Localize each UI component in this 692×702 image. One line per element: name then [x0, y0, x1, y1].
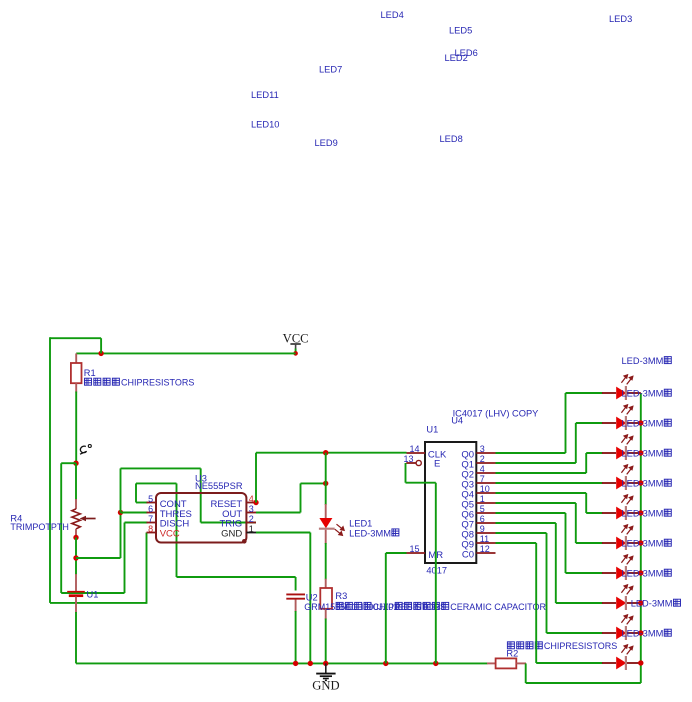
U4 pin 3 Q0: [461, 444, 495, 461]
junction on cathode bus: [638, 660, 643, 665]
svg-text:LED-3MM: LED-3MM: [622, 509, 664, 519]
svg-text:4: 4: [249, 494, 254, 504]
LED D7: [602, 555, 641, 580]
node VCC branch junction: [98, 351, 103, 356]
wire THRES connect: [121, 512, 148, 514]
wire left rail down: [49, 337, 51, 603]
U3 pin 6 THRES: [147, 504, 192, 520]
svg-text:LED-3MM: LED-3MM: [622, 419, 664, 429]
label LED-3MM: [622, 479, 672, 489]
node THRES branch junction: [73, 555, 78, 560]
svg-text:LED-3MM: LED-3MM: [622, 539, 664, 549]
svg-text:8: 8: [148, 524, 153, 534]
wire 555 GND connect: [256, 532, 310, 534]
LED D3: [602, 435, 641, 460]
wire trimpot to battery: [75, 538, 77, 576]
svg-text:LED-3MM: LED-3MM: [631, 599, 673, 609]
junction on cathode bus: [638, 540, 643, 545]
U4 pin 7 Q3: [461, 474, 495, 491]
LED D5: [602, 495, 641, 520]
wire CONT connect: [136, 502, 148, 504]
svg-text:12: 12: [480, 544, 490, 554]
LED D2: [602, 405, 641, 430]
svg-text:LED5: LED5: [449, 26, 472, 36]
svg-text:LED7: LED7: [319, 65, 342, 75]
wire Q8 to LED: [496, 533, 604, 633]
wire capacitor top: [295, 577, 297, 591]
svg-text:13: 13: [403, 454, 413, 464]
U4 pin 9 Q8: [461, 524, 495, 541]
wire cathode bus: [640, 393, 642, 683]
svg-text:CERAMIC CAPACITOR: CERAMIC CAPACITOR: [450, 602, 546, 612]
wire E to ground rail: [435, 483, 437, 664]
resistor R2: [487, 658, 526, 668]
svg-text:LED4: LED4: [381, 10, 404, 20]
svg-text:5: 5: [148, 494, 153, 504]
label R3 value: [336, 602, 446, 612]
U4 pin 6 Q7: [461, 514, 495, 531]
svg-text:U4: U4: [451, 416, 463, 426]
svg-text:LED-3MM: LED-3MM: [622, 389, 664, 399]
wire battery to ground rail: [75, 612, 77, 663]
wire THRES branch up: [120, 513, 122, 559]
label R2 value: [507, 641, 617, 651]
svg-text:VCC: VCC: [160, 529, 180, 540]
U4 pin 11 Q9: [461, 534, 495, 551]
node trimpot bottom junction: [73, 535, 78, 540]
svg-text:2: 2: [249, 514, 254, 524]
wire RESET up: [255, 453, 257, 503]
junction on ground rail: [308, 661, 313, 666]
junction on ground rail: [293, 661, 298, 666]
wire VCC branch up: [100, 338, 102, 353]
label LED-3MM: [622, 449, 672, 459]
svg-text:3: 3: [249, 504, 254, 514]
svg-text:U1: U1: [426, 424, 438, 434]
wire Q4 to LED: [496, 493, 604, 513]
svg-text:C0: C0: [462, 550, 474, 561]
U3 corner dot: [242, 539, 247, 544]
node VCC junction: [293, 351, 298, 356]
wire THRES-TRIG top: [121, 467, 201, 469]
wire capacitor to ground rail: [295, 611, 297, 663]
wire OUT connect: [256, 512, 301, 514]
svg-text:LED3: LED3: [609, 14, 632, 24]
no-connect marker: [80, 445, 91, 455]
wire 555 VCC pin drop: [146, 533, 148, 604]
svg-text:LED-3MM: LED-3MM: [349, 528, 391, 538]
svg-text:LED11: LED11: [251, 90, 279, 100]
LED D8: [602, 585, 641, 610]
node LED1 top junction: [323, 450, 328, 455]
wire VCC horizontal: [76, 352, 295, 354]
label LED-3MM: [622, 419, 672, 429]
junction on cathode bus: [638, 630, 643, 635]
op-amp U3 NE555PSR body: [156, 493, 246, 543]
svg-text:CHIPRESISTORS: CHIPRESISTORS: [544, 641, 617, 651]
svg-text:NE555PSR: NE555PSR: [195, 481, 243, 491]
U4 pin 14 CLK: [407, 444, 448, 461]
svg-text:LED-3MM: LED-3MM: [622, 569, 664, 579]
svg-text:LED-3MM: LED-3MM: [622, 629, 664, 639]
svg-text:TRIMPOTPTH: TRIMPOTPTH: [10, 522, 69, 532]
U3 pin 1 GND: [221, 524, 256, 540]
wire MR connect: [386, 552, 407, 554]
svg-text:LED1: LED1: [349, 519, 372, 529]
node THRES junction: [118, 510, 123, 515]
wire bottom jog to pin8: [50, 602, 147, 604]
U3 pin 4 RESET: [211, 494, 256, 510]
svg-text:10: 10: [480, 484, 490, 494]
node R1-R4 junction: [73, 461, 78, 466]
junction on cathode bus: [638, 450, 643, 455]
U4 pin 12 C0: [462, 544, 496, 561]
wire Q6 to LED: [496, 513, 604, 573]
node OUT-LED1 junction: [323, 481, 328, 486]
wire RESET to CLK: [256, 452, 407, 454]
label LED-3MM: [622, 539, 672, 549]
svg-text:LED8: LED8: [440, 134, 463, 144]
wire Q1 to LED: [496, 423, 604, 463]
wire to capacitor: [177, 576, 296, 578]
trimmer potentiometer R4: [72, 499, 96, 538]
svg-text:R1: R1: [84, 368, 96, 378]
VCC power flag: [283, 332, 309, 354]
junction on cathode bus: [638, 420, 643, 425]
wire DISCH drop: [124, 523, 126, 594]
U4 pin 4 Q2: [461, 464, 495, 481]
wire Q3 to LED: [496, 482, 604, 484]
svg-text:7: 7: [480, 474, 485, 484]
label LED-3MM: [622, 629, 672, 639]
wire OUT to LED1: [301, 482, 326, 484]
label LED-3MM row1: [622, 389, 672, 399]
wire DISCH connect: [125, 522, 148, 524]
junction on cathode bus: [638, 510, 643, 515]
wire left inner drop: [60, 463, 62, 593]
wire LED1 anode: [325, 453, 327, 505]
svg-text:LED-3MM: LED-3MM: [622, 479, 664, 489]
svg-text:IC4017 (LHV) COPY: IC4017 (LHV) COPY: [453, 409, 539, 419]
label R1 value: [85, 378, 195, 388]
node RESET junction: [253, 500, 258, 505]
U4 pin 15 MR: [407, 544, 444, 561]
wire THRES branch: [76, 557, 121, 559]
svg-text:U1: U1: [87, 589, 99, 599]
junction on cathode bus: [638, 600, 643, 605]
wire ground rail: [76, 662, 488, 664]
junction on ground rail: [323, 661, 328, 666]
U4 pin 1 Q5: [461, 494, 495, 511]
resistor R3: [320, 579, 332, 620]
wire E jog: [406, 482, 436, 484]
wire Q9 to LED: [496, 543, 604, 663]
wire 555 GND drop: [309, 533, 311, 664]
LED D4: [602, 465, 641, 490]
svg-text:6: 6: [480, 514, 485, 524]
svg-text:14: 14: [409, 444, 419, 454]
svg-text:2: 2: [480, 454, 485, 464]
U3 pin 7 DISCH: [147, 514, 190, 530]
svg-text:LED-3MM: LED-3MM: [622, 356, 664, 366]
wire branch left: [61, 462, 76, 464]
svg-text:11: 11: [480, 534, 489, 544]
svg-text:1: 1: [480, 494, 485, 504]
wire Q5 to LED: [496, 503, 604, 543]
wire TRIG drop: [200, 468, 202, 522]
wire THRES-TRIG up: [120, 468, 122, 512]
capacitor U2: [286, 594, 305, 612]
wire R1 bottom: [75, 392, 77, 464]
label LED-3MM: [622, 509, 672, 519]
battery U1: [67, 574, 85, 613]
svg-text:E: E: [434, 459, 440, 470]
wire OUT up: [300, 483, 302, 512]
svg-text:4: 4: [480, 464, 485, 474]
wire top jog: [50, 337, 101, 339]
wire cathode bus bottom: [526, 682, 641, 684]
svg-text:GND: GND: [221, 529, 242, 540]
svg-text:1: 1: [249, 524, 254, 534]
svg-text:LED2: LED2: [445, 53, 468, 63]
label LED-3MM: [622, 569, 672, 579]
svg-text:7: 7: [148, 514, 153, 524]
LED LED1: [319, 504, 344, 544]
U3 pin 2 TRIG: [219, 514, 256, 530]
svg-text:6: 6: [148, 504, 153, 514]
resistor R1: [71, 353, 82, 392]
label LED-3MM shifted: [631, 599, 681, 609]
LED D1: [602, 375, 641, 400]
junction on cathode bus: [638, 570, 643, 575]
wire to trimpot: [75, 463, 77, 500]
svg-text:LED-3MM: LED-3MM: [622, 449, 664, 459]
LED D6: [602, 525, 641, 550]
svg-text:15: 15: [409, 544, 419, 554]
junction on ground rail: [433, 661, 438, 666]
LED D9: [602, 615, 641, 640]
wire CONT drop: [176, 483, 178, 577]
svg-text:R3: R3: [335, 591, 347, 601]
svg-text:GRM1555C1H300JZ01: GRM1555C1H300JZ01: [304, 602, 398, 612]
wire TRIG connect: [201, 522, 256, 524]
svg-text:GND: GND: [312, 679, 339, 693]
label LED1 value: [349, 528, 399, 538]
wire Q2 to LED: [496, 453, 604, 473]
wire E drop: [405, 463, 407, 483]
U4 pin 2 Q1: [461, 454, 495, 471]
svg-text:3: 3: [480, 444, 485, 454]
wire CONT up: [135, 483, 137, 502]
U4 pin 5 Q6: [461, 504, 495, 521]
wire Q0 to LED: [496, 393, 604, 453]
IC U4 4017 body: [425, 442, 476, 563]
wire to battery plus: [61, 592, 124, 594]
svg-text:R2: R2: [506, 649, 518, 659]
wire R2 to cathode bus: [525, 663, 527, 683]
svg-text:9: 9: [480, 524, 485, 534]
U3 pin 3 OUT: [222, 504, 256, 520]
label U2 value: [304, 602, 546, 612]
wire R3 to ground rail: [325, 619, 327, 664]
U3 pin 5 CONT: [147, 494, 187, 510]
junction on ground rail: [383, 661, 388, 666]
wire MR to ground rail: [385, 553, 387, 663]
ground: [312, 663, 339, 692]
U4 pin 13 E: [403, 454, 440, 470]
label LED-3MM top: [622, 356, 672, 366]
svg-text:LED10: LED10: [251, 120, 279, 130]
svg-text:5: 5: [480, 504, 485, 514]
wire Q7 to LED: [496, 523, 604, 603]
wire LED1 cathode to R3: [325, 543, 327, 580]
svg-text:LED9: LED9: [315, 138, 338, 148]
U3 pin 8 VCC: [147, 524, 180, 540]
wire CONT top: [136, 482, 177, 484]
LED D10: [602, 645, 641, 670]
svg-text:CHIPRESISTORS: CHIPRESISTORS: [121, 378, 194, 388]
junction on cathode bus: [638, 480, 643, 485]
U4 pin 10 Q4: [461, 484, 495, 501]
